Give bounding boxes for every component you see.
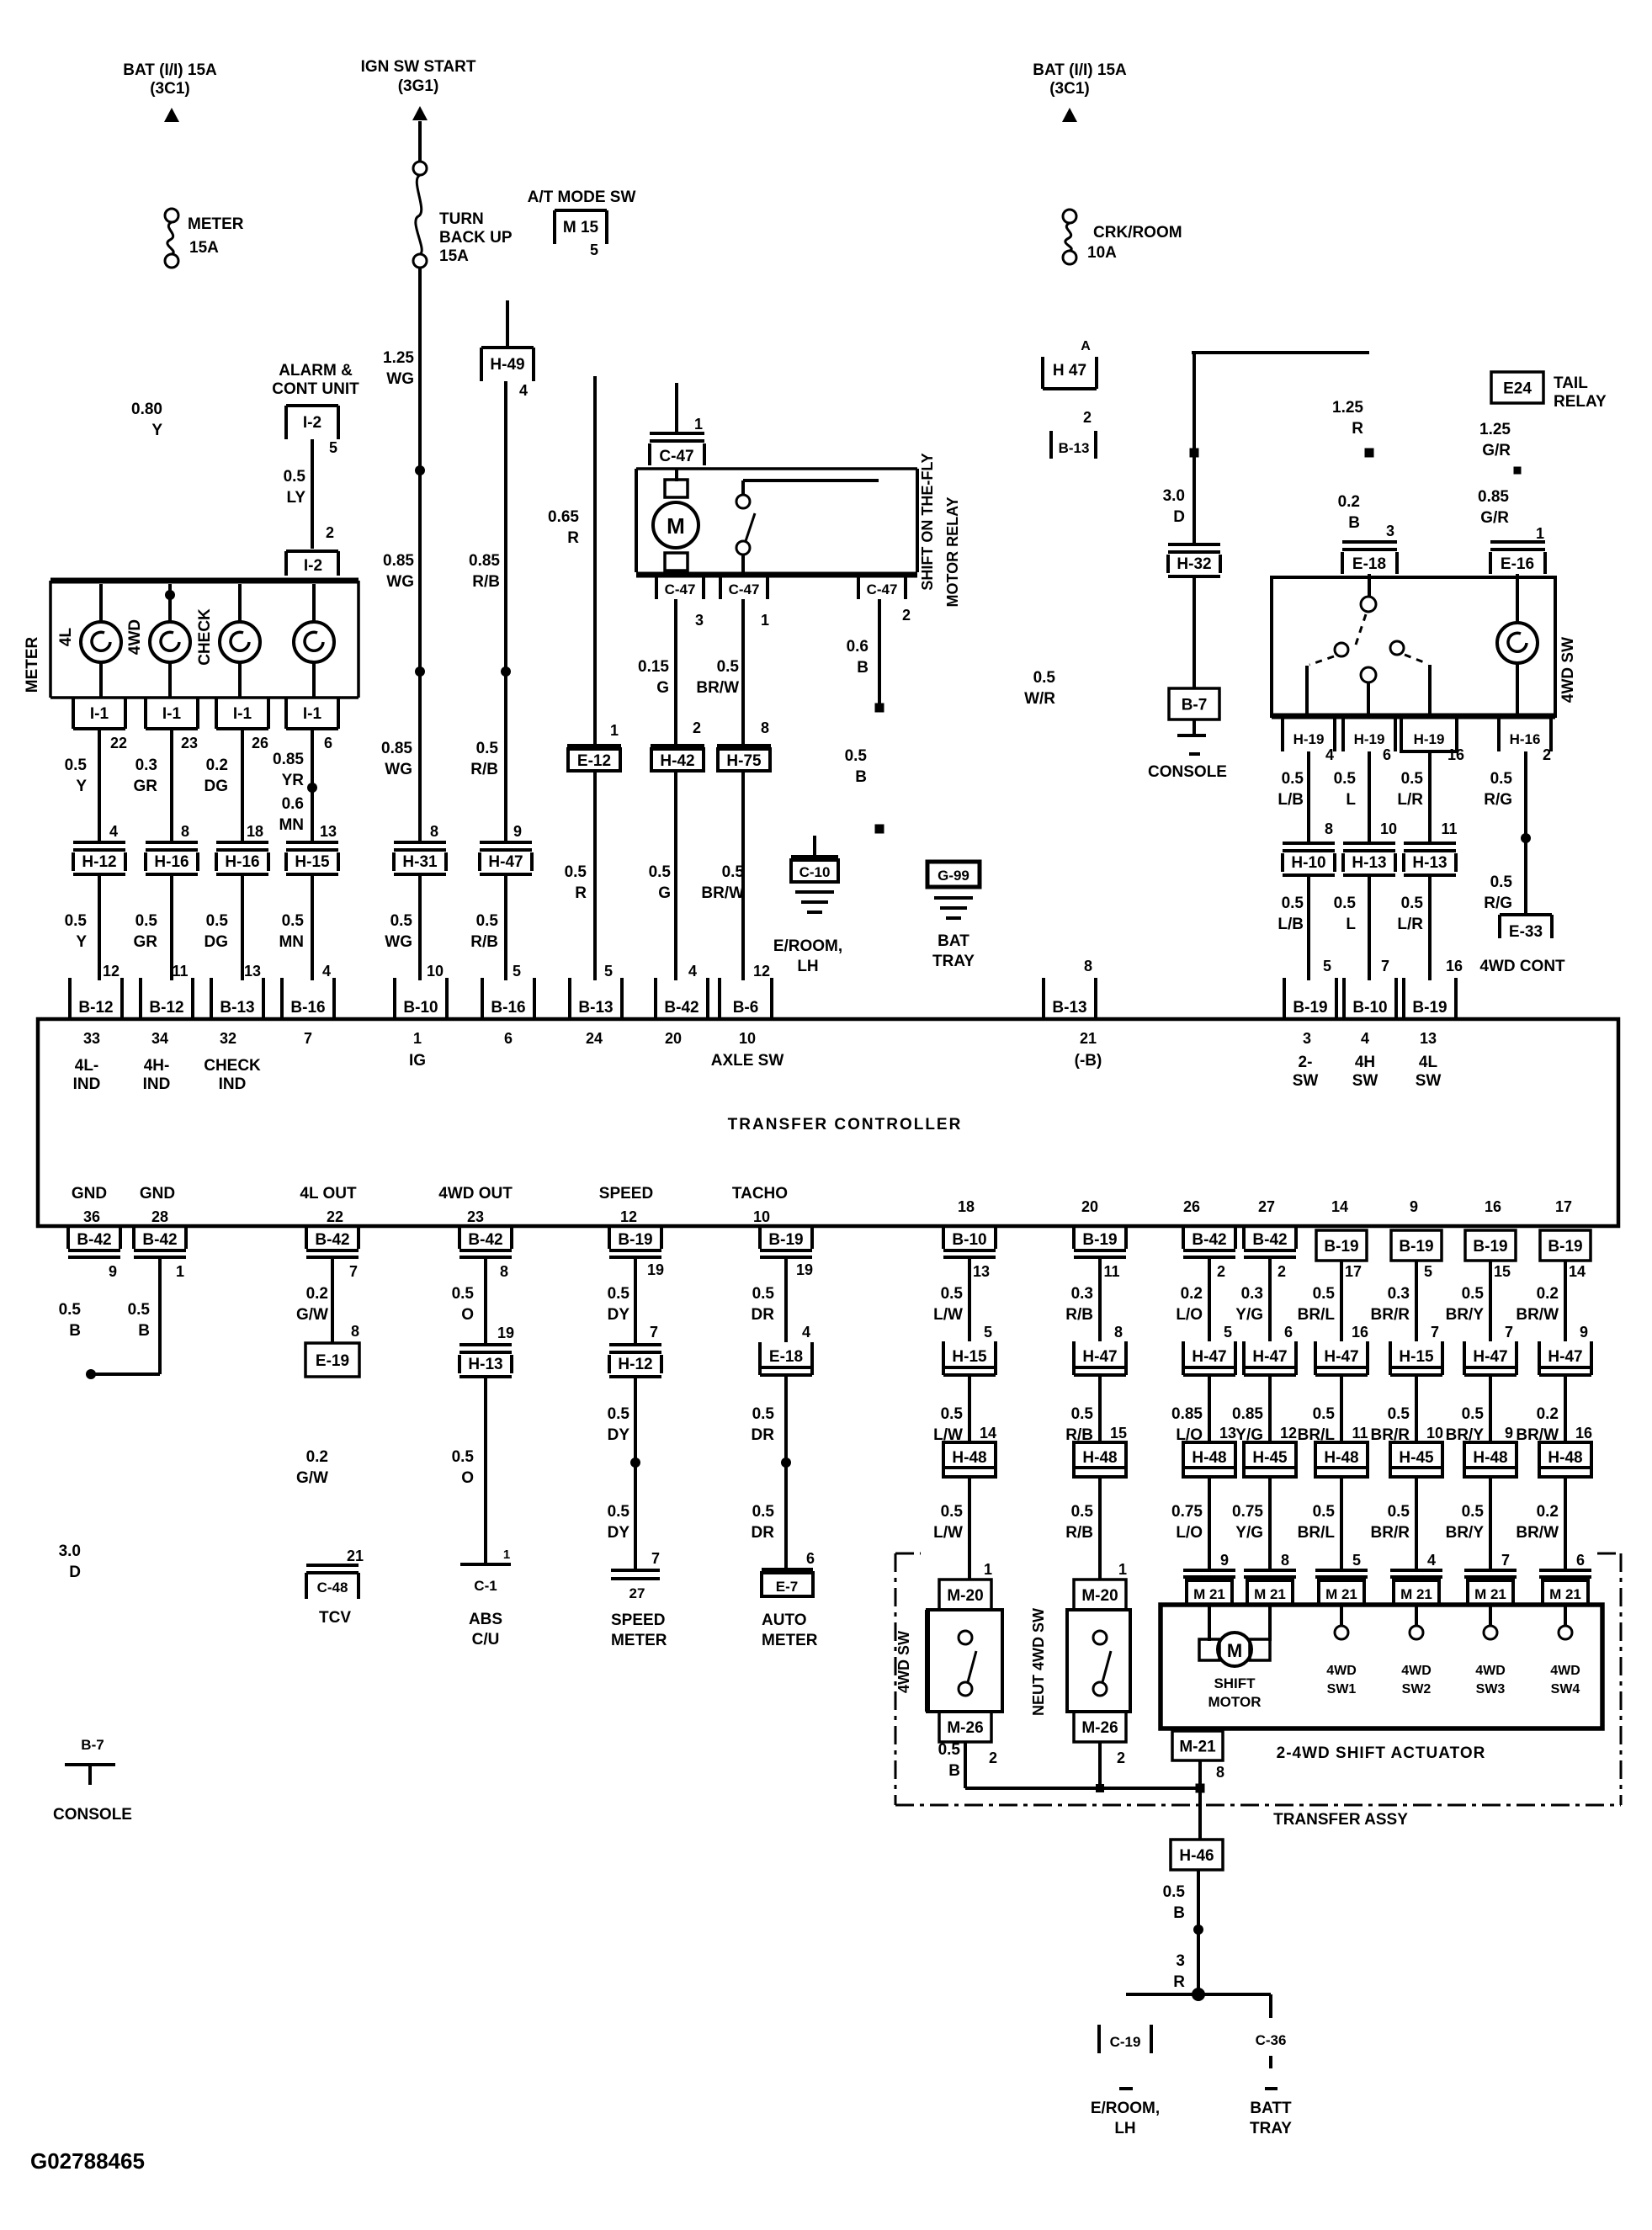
svg-text:CRK/ROOM: CRK/ROOM (1093, 224, 1182, 242)
wire meter col 4 (311, 729, 314, 842)
svg-text:1: 1 (1118, 1561, 1127, 1578)
svg-text:0.3: 0.3 (1071, 1285, 1093, 1303)
connector H-49 (481, 346, 534, 349)
junction square bus (1096, 1784, 1104, 1792)
svg-text:E-19: E-19 (316, 1352, 349, 1370)
svg-text:0.5: 0.5 (1401, 895, 1424, 912)
lamp spare (294, 622, 334, 662)
svg-text:5: 5 (1323, 958, 1331, 974)
svg-text:DG: DG (205, 778, 229, 795)
connector H-47 r8 (1538, 1341, 1541, 1375)
connector H-47 r4 (1242, 1341, 1246, 1375)
connector G-99 (927, 862, 980, 887)
svg-text:L: L (1346, 916, 1356, 933)
wire neut gnd (1098, 1742, 1102, 1788)
wire 0.5 R/B lower (504, 876, 507, 980)
svg-text:SPEED: SPEED (599, 1185, 653, 1203)
connector M-26 a (939, 1712, 991, 1742)
svg-text:TRAY: TRAY (1250, 2120, 1292, 2137)
svg-text:0.5: 0.5 (608, 1405, 630, 1423)
chassis ground console left (65, 1763, 115, 1766)
svg-text:MN: MN (279, 933, 304, 951)
svg-text:15A: 15A (439, 247, 469, 265)
svg-text:4: 4 (1361, 1030, 1369, 1047)
wire actuator gnd (1198, 1760, 1202, 1788)
wire 4wdsw gnd (964, 1742, 967, 1788)
wire 0.65 R (593, 376, 597, 746)
wire 0.5 R lower (593, 773, 597, 980)
chassis ground console (1193, 719, 1196, 734)
svg-text:C-47: C-47 (665, 581, 696, 597)
svg-text:B-19: B-19 (1293, 999, 1327, 1017)
wire 0.5 L/R lower (1428, 877, 1432, 980)
svg-text:10: 10 (739, 1030, 756, 1047)
svg-text:SW2: SW2 (1402, 1682, 1432, 1696)
svg-text:0.85: 0.85 (383, 552, 414, 570)
svg-text:B-16: B-16 (491, 999, 525, 1017)
connector C-10 (791, 855, 838, 858)
connector H-48 r3 (1183, 1442, 1235, 1477)
svg-text:M 21: M 21 (1549, 1586, 1581, 1602)
svg-text:H-42: H-42 (660, 752, 694, 770)
joint connector H-13 b (1343, 842, 1395, 845)
svg-text:IND: IND (143, 1075, 171, 1093)
svg-text:0.5: 0.5 (1334, 770, 1357, 788)
svg-text:O: O (461, 1469, 474, 1487)
connector M-26 b (1074, 1712, 1126, 1742)
svg-text:5: 5 (1224, 1324, 1232, 1341)
connector E-18 (1342, 540, 1397, 544)
svg-text:6: 6 (806, 1550, 815, 1567)
svg-text:8: 8 (761, 719, 769, 736)
junction R/B (501, 666, 511, 677)
svg-text:0.2: 0.2 (306, 1285, 328, 1303)
svg-text:BAT (I/I) 15A: BAT (I/I) 15A (1033, 61, 1127, 79)
svg-text:CONSOLE: CONSOLE (1148, 763, 1227, 781)
wire 0.6 B (878, 599, 881, 704)
wire 0.5 L lower (1368, 877, 1371, 980)
wire 0.5 WG lower (418, 876, 422, 980)
svg-text:H-16: H-16 (225, 853, 259, 871)
svg-text:34: 34 (151, 1030, 168, 1047)
svg-text:13: 13 (1420, 1030, 1437, 1047)
wire speed (634, 1257, 637, 1345)
off-page arrow BAT (164, 108, 179, 122)
connector H-48 r8 (1539, 1442, 1591, 1477)
svg-text:H-19: H-19 (1414, 731, 1445, 747)
connector C-1 (460, 1563, 511, 1566)
svg-text:AUTO: AUTO (762, 1611, 806, 1629)
dashed boundary line (895, 1553, 921, 1555)
svg-text:8: 8 (181, 823, 189, 840)
svg-text:1: 1 (984, 1561, 992, 1578)
svg-text:B-19: B-19 (1548, 1238, 1582, 1256)
svg-text:I-1: I-1 (162, 705, 182, 723)
svg-text:1: 1 (1536, 525, 1544, 542)
svg-text:0.15: 0.15 (638, 658, 669, 676)
svg-text:TRANSFER ASSY: TRANSFER ASSY (1273, 1811, 1408, 1829)
svg-text:C-47: C-47 (729, 581, 760, 597)
svg-text:0.85: 0.85 (1478, 488, 1509, 506)
connector M-21 #6 (1539, 1569, 1591, 1572)
wire 0.85 L/O (1208, 1375, 1211, 1442)
wire 0.5 BRW lower (741, 773, 745, 980)
wire 0.5 R/G (1524, 751, 1527, 915)
svg-text:CONSOLE: CONSOLE (53, 1806, 132, 1824)
svg-text:3: 3 (1303, 1030, 1311, 1047)
wire 3.0 D console (1193, 353, 1196, 544)
svg-text:B-42: B-42 (1192, 1231, 1226, 1249)
svg-text:2: 2 (1278, 1263, 1286, 1280)
svg-text:0.2: 0.2 (1537, 1405, 1559, 1423)
wire IGN to fuse (418, 121, 422, 162)
svg-text:0.85: 0.85 (273, 751, 304, 768)
svg-text:(3C1): (3C1) (1049, 80, 1090, 98)
svg-text:0.5: 0.5 (845, 747, 868, 765)
wire right drop (1269, 1994, 1272, 2018)
svg-text:9: 9 (1410, 1198, 1418, 1215)
svg-text:GR: GR (134, 778, 158, 795)
svg-text:WG: WG (385, 933, 412, 951)
svg-text:0.85: 0.85 (1171, 1405, 1203, 1423)
svg-text:20: 20 (665, 1030, 682, 1047)
wire tacho 2 (784, 1375, 788, 1568)
svg-text:G/W: G/W (296, 1306, 328, 1324)
svg-text:H-47: H-47 (1082, 1348, 1117, 1366)
svg-text:8: 8 (351, 1323, 359, 1340)
svg-text:B-13: B-13 (1052, 999, 1086, 1017)
svg-text:SW4: SW4 (1551, 1682, 1580, 1696)
svg-text:M 21: M 21 (1474, 1586, 1506, 1602)
svg-text:IG: IG (409, 1052, 426, 1070)
svg-text:M 21: M 21 (1400, 1586, 1432, 1602)
lamp 4L (81, 622, 121, 662)
svg-text:0.2: 0.2 (1537, 1503, 1559, 1521)
svg-text:0.2: 0.2 (1537, 1285, 1559, 1303)
wire ground bus (965, 1787, 1200, 1790)
svg-text:H-10: H-10 (1291, 854, 1325, 872)
wire 0.3 R/B (1098, 1257, 1102, 1341)
svg-text:2-4WD SHIFT ACTUATOR: 2-4WD SHIFT ACTUATOR (1277, 1744, 1486, 1762)
svg-text:27: 27 (1258, 1198, 1275, 1215)
inline connector H-42 (651, 744, 704, 747)
fuse TURN BACK UP 15A (413, 162, 427, 175)
wire 0.75 L/O (1208, 1477, 1211, 1570)
svg-text:I-1: I-1 (303, 705, 322, 723)
svg-text:H-47: H-47 (488, 853, 523, 871)
wire to C-10 (813, 836, 816, 857)
svg-text:14: 14 (1569, 1263, 1586, 1280)
svg-text:AXLE SW: AXLE SW (711, 1052, 784, 1070)
joint connector H-47 (480, 841, 532, 844)
svg-text:B-10: B-10 (403, 999, 438, 1017)
svg-text:B: B (948, 1762, 960, 1780)
svg-text:5: 5 (1352, 1552, 1361, 1569)
svg-text:4H-: 4H- (144, 1057, 170, 1075)
svg-text:C-1: C-1 (474, 1578, 497, 1594)
component TRANSFER CONTROLLER box (38, 1019, 1618, 1226)
svg-text:H-45: H-45 (1399, 1449, 1434, 1467)
svg-text:NEUT 4WD SW: NEUT 4WD SW (1030, 1608, 1047, 1716)
ground symbol C-10 (795, 890, 834, 894)
svg-text:SHIFT ON THE-FLY: SHIFT ON THE-FLY (919, 453, 936, 590)
svg-text:MOTOR: MOTOR (1208, 1694, 1262, 1710)
svg-text:0.75: 0.75 (1232, 1503, 1263, 1521)
svg-text:8: 8 (500, 1263, 508, 1280)
svg-text:B-10: B-10 (952, 1231, 986, 1249)
connector B-42 r3 (1182, 1228, 1185, 1249)
svg-text:5: 5 (590, 242, 598, 258)
svg-text:0.3: 0.3 (135, 757, 157, 774)
connector I-1 meter #3 (215, 697, 218, 729)
connector M-21 #5 (1464, 1569, 1517, 1572)
svg-text:15: 15 (1110, 1425, 1127, 1442)
joint connector H-15 (286, 841, 338, 844)
svg-text:O: O (461, 1306, 474, 1324)
svg-text:IND: IND (219, 1075, 247, 1093)
svg-text:H-19: H-19 (1293, 731, 1325, 747)
svg-text:H-47: H-47 (1548, 1348, 1582, 1366)
page link square 2 (875, 825, 884, 834)
svg-text:TACHO: TACHO (732, 1185, 788, 1203)
svg-text:2: 2 (902, 607, 911, 624)
svg-text:13: 13 (1219, 1425, 1236, 1442)
svg-text:SW: SW (1293, 1072, 1319, 1090)
component METER box (50, 578, 359, 584)
svg-text:DR: DR (752, 1426, 775, 1444)
svg-text:22: 22 (327, 1208, 343, 1225)
svg-text:I-2: I-2 (303, 414, 321, 432)
switch arm (968, 1651, 976, 1682)
svg-text:32: 32 (220, 1030, 236, 1047)
svg-text:B-16: B-16 (290, 999, 325, 1017)
svg-text:1: 1 (503, 1548, 510, 1562)
svg-text:21: 21 (1080, 1030, 1097, 1047)
svg-text:0.5: 0.5 (565, 863, 587, 881)
svg-text:16: 16 (1575, 1425, 1592, 1442)
connector H-48 r7 (1464, 1442, 1517, 1477)
svg-text:H 47: H 47 (1053, 362, 1086, 380)
svg-text:4: 4 (1325, 746, 1334, 763)
svg-text:BR/Y: BR/Y (1446, 1524, 1485, 1542)
connector H-19 under 4WD SW (1281, 716, 1284, 751)
svg-text:26: 26 (252, 735, 268, 751)
connector H-48 r5 (1315, 1442, 1368, 1477)
svg-text:L/O: L/O (1176, 1524, 1203, 1542)
connector I-1 meter #1 (72, 697, 75, 729)
svg-text:11: 11 (172, 963, 188, 980)
svg-text:M-26: M-26 (947, 1719, 983, 1737)
wire (1272, 714, 1555, 719)
svg-text:DY: DY (608, 1426, 630, 1444)
svg-text:MOTOR RELAY: MOTOR RELAY (944, 496, 961, 607)
connector B-16 (280, 978, 284, 1017)
connector M-21 #2 (1244, 1569, 1296, 1572)
actuator switch SW1 (1340, 1605, 1343, 1626)
wire 0.5 BR/Y (1489, 1477, 1492, 1570)
svg-text:BR/W: BR/W (701, 884, 744, 902)
svg-text:BR/R: BR/R (1371, 1524, 1410, 1542)
connector B-12 (68, 978, 72, 1017)
svg-text:METER: METER (611, 1632, 667, 1649)
connector B-16 c (481, 978, 484, 1017)
svg-text:15A: 15A (189, 239, 219, 257)
wire (925, 1610, 930, 1712)
shift motor (1208, 1605, 1211, 1641)
svg-text:R/B: R/B (472, 573, 500, 591)
wire 0.2 L/O (1208, 1257, 1211, 1341)
svg-text:4: 4 (322, 963, 331, 980)
svg-text:B: B (857, 659, 868, 677)
svg-text:0.3: 0.3 (1241, 1285, 1263, 1303)
joint connector H-12 b (609, 1343, 661, 1346)
svg-text:19: 19 (647, 1261, 664, 1278)
svg-text:TAIL: TAIL (1554, 374, 1588, 392)
svg-text:6: 6 (504, 1030, 513, 1047)
wire into 4WD SW lamp (1516, 574, 1519, 623)
svg-text:H-49: H-49 (490, 356, 524, 374)
svg-text:4: 4 (109, 823, 118, 840)
connector B-42 4lout (305, 1228, 308, 1249)
svg-text:BR/Y: BR/Y (1446, 1306, 1485, 1324)
svg-text:ALARM &: ALARM & (279, 362, 353, 380)
connector B-19 r6 (1391, 1230, 1442, 1261)
svg-text:9: 9 (513, 823, 522, 840)
svg-text:BAT (I/I) 15A: BAT (I/I) 15A (123, 61, 217, 79)
svg-text:12: 12 (103, 963, 120, 980)
svg-text:16: 16 (1446, 958, 1463, 974)
svg-text:0.5: 0.5 (1071, 1405, 1094, 1423)
svg-text:Y: Y (151, 422, 162, 439)
page link square (875, 704, 884, 713)
svg-text:LH: LH (797, 958, 818, 975)
svg-text:B: B (1173, 1904, 1185, 1922)
svg-text:CHECK: CHECK (196, 608, 214, 666)
svg-text:W/R: W/R (1024, 690, 1055, 708)
svg-text:H-13: H-13 (468, 1356, 502, 1373)
svg-text:0.5: 0.5 (390, 912, 413, 930)
svg-text:L/W: L/W (933, 1524, 963, 1542)
svg-text:0.5: 0.5 (1334, 895, 1357, 912)
svg-text:3: 3 (1386, 523, 1394, 539)
svg-text:B-19: B-19 (1324, 1238, 1358, 1256)
connector B-19 tacho (758, 1228, 762, 1249)
svg-text:0.65: 0.65 (548, 508, 579, 526)
svg-text:5: 5 (984, 1324, 992, 1341)
svg-text:G/W: G/W (296, 1469, 328, 1487)
svg-text:BR/W: BR/W (696, 679, 739, 697)
svg-text:22: 22 (110, 735, 127, 751)
svg-text:6: 6 (1284, 1324, 1293, 1341)
connector B-42 gnd1 (66, 1228, 70, 1249)
svg-text:0.5: 0.5 (65, 757, 88, 774)
joint connector H-31 (394, 841, 446, 844)
svg-text:1.25: 1.25 (1332, 399, 1363, 417)
wire (168, 662, 172, 698)
svg-text:H-15: H-15 (1399, 1348, 1434, 1366)
ground symbol G-99 (934, 896, 973, 900)
svg-text:24: 24 (586, 1030, 603, 1047)
svg-text:0.5: 0.5 (1462, 1405, 1485, 1423)
svg-text:BR/L: BR/L (1298, 1524, 1336, 1542)
wire 0.5 BR/L (1340, 1375, 1343, 1442)
dashed boundary line (895, 1804, 1621, 1807)
svg-text:0.5: 0.5 (752, 1503, 775, 1521)
svg-text:0.5: 0.5 (1282, 770, 1304, 788)
svg-text:1: 1 (610, 722, 619, 739)
svg-text:DG: DG (205, 933, 229, 951)
connector C-47 bottom (719, 575, 722, 599)
svg-text:H-47: H-47 (1324, 1348, 1358, 1366)
connector E-19 (305, 1343, 359, 1377)
wire corner horizontal (1192, 351, 1369, 354)
svg-text:4: 4 (1427, 1552, 1436, 1569)
connector B-19 r8 (1540, 1230, 1591, 1261)
svg-text:7: 7 (349, 1263, 358, 1280)
svg-text:0.5: 0.5 (649, 863, 672, 881)
svg-text:0.5: 0.5 (1490, 873, 1513, 891)
connector H-47 r7 (1463, 1341, 1466, 1375)
svg-text:H-48: H-48 (1192, 1449, 1226, 1467)
svg-text:B-6: B-6 (733, 999, 759, 1017)
svg-text:2: 2 (1083, 409, 1092, 426)
svg-text:H-15: H-15 (952, 1348, 987, 1366)
svg-text:B-42: B-42 (142, 1231, 177, 1249)
svg-text:B: B (1348, 514, 1360, 532)
svg-text:H-48: H-48 (1324, 1449, 1358, 1467)
svg-text:10: 10 (1380, 820, 1397, 837)
svg-text:M: M (1227, 1640, 1242, 1661)
meter lamp wire 1 (99, 584, 103, 622)
switch contacts 4WD SW (1361, 597, 1376, 612)
svg-text:0.6: 0.6 (282, 795, 304, 813)
page square console (1190, 449, 1199, 458)
svg-text:R/B: R/B (1065, 1524, 1093, 1542)
svg-text:BR/L: BR/L (1298, 1306, 1336, 1324)
wire 0.5 L/B (1307, 751, 1310, 843)
svg-text:C/U: C/U (472, 1631, 500, 1649)
svg-text:0.3: 0.3 (1388, 1285, 1410, 1303)
connector H-47 r2 (1072, 1341, 1076, 1375)
joint connector H-13 d (459, 1343, 512, 1346)
wire 0.5 BR/W (741, 599, 745, 746)
svg-text:9: 9 (1580, 1324, 1588, 1341)
junction RG (1521, 833, 1531, 843)
svg-text:IGN SW START: IGN SW START (361, 58, 476, 76)
connector I-2 upper (286, 404, 338, 407)
svg-text:0.5: 0.5 (1163, 1883, 1186, 1901)
connector B-10 r1 (942, 1228, 945, 1249)
junction square bus 2 (1196, 1784, 1205, 1793)
svg-text:L: L (1346, 791, 1356, 809)
svg-text:28: 28 (151, 1208, 168, 1225)
svg-text:D: D (1173, 508, 1185, 526)
wire (99, 662, 103, 698)
svg-text:0.2: 0.2 (1181, 1285, 1203, 1303)
actuator switch SW2 (1415, 1605, 1418, 1626)
svg-text:RELAY: RELAY (1554, 393, 1607, 411)
svg-text:19: 19 (796, 1261, 813, 1278)
svg-text:4WD: 4WD (1550, 1664, 1580, 1678)
wire 0.5 B gnd (1197, 1870, 1200, 1994)
svg-text:2: 2 (326, 524, 334, 541)
wire speed 2 (634, 1377, 637, 1569)
wire meter col 3 (241, 729, 244, 842)
dashed boundary line (895, 1553, 897, 1805)
connector B-19 r7 (1465, 1230, 1516, 1261)
wire (1269, 2056, 1272, 2068)
wire 0.3 BR/R (1415, 1261, 1418, 1341)
